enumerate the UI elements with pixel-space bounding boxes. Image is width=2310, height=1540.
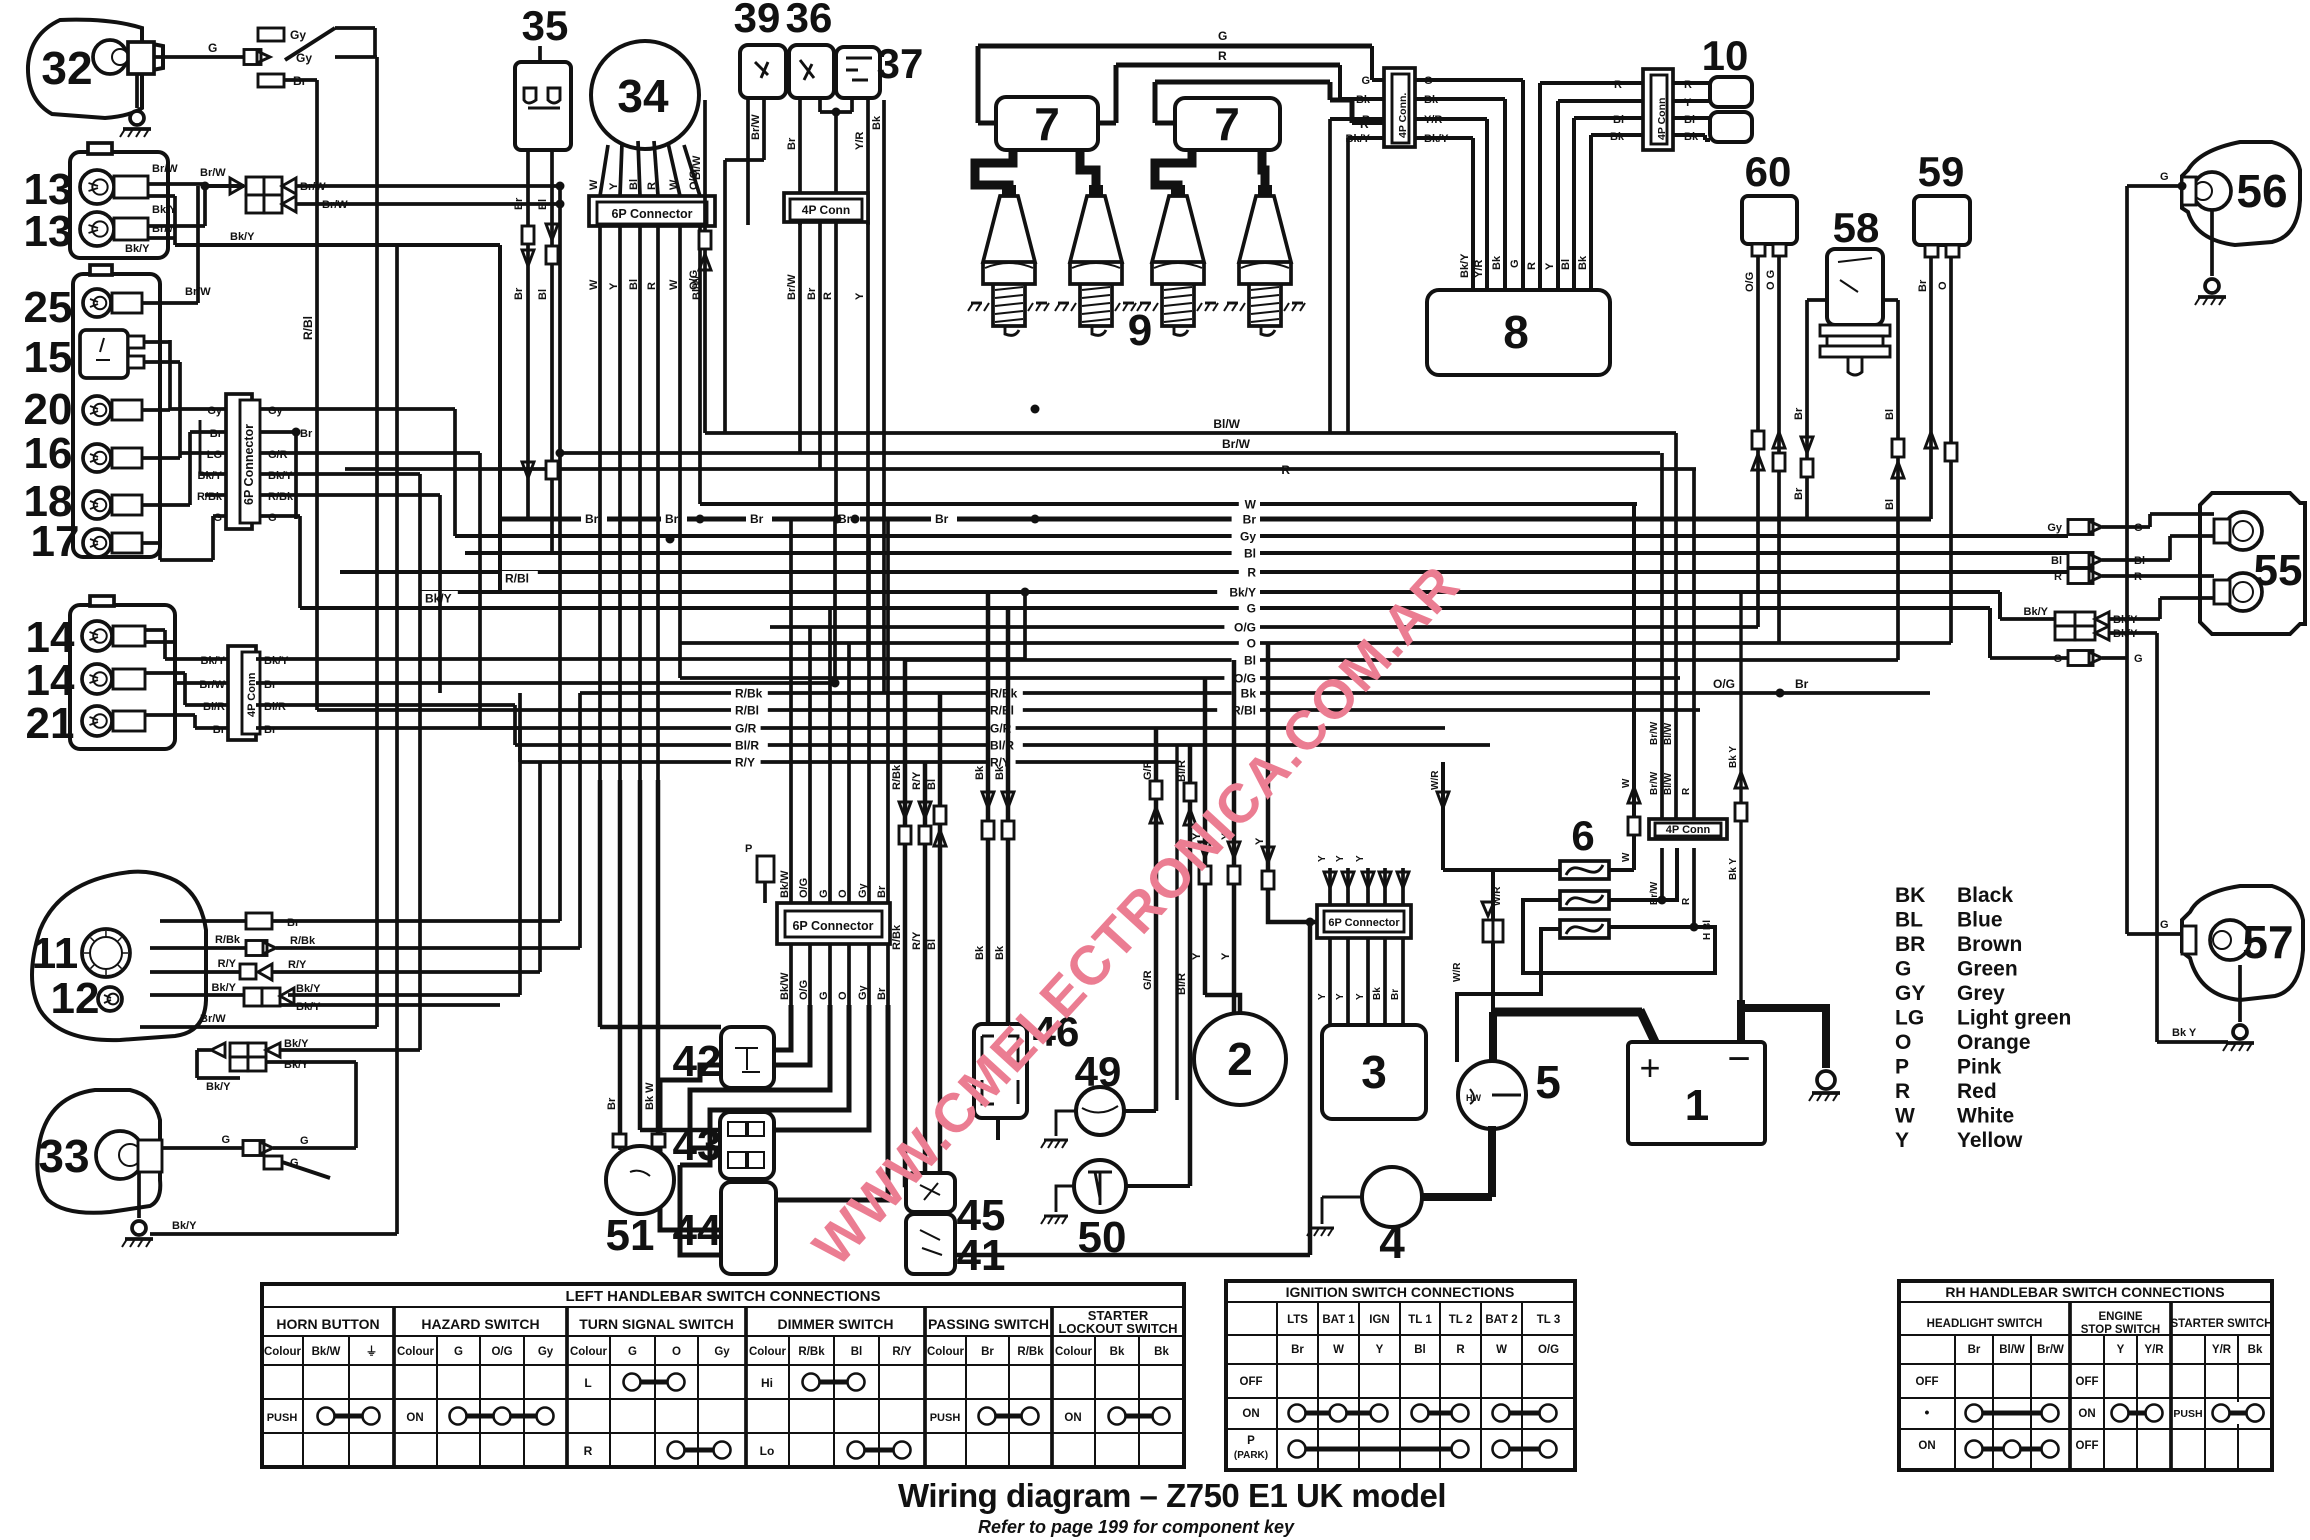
relay 44 xyxy=(721,1182,776,1274)
svg-text:Bk/Y: Bk/Y xyxy=(212,982,237,994)
svg-text:R/Y: R/Y xyxy=(218,958,237,970)
svg-text:O/G: O/G xyxy=(798,980,810,1000)
vertical wire Br x317 xyxy=(284,78,317,82)
svg-text:Y/R: Y/R xyxy=(2144,1344,2164,1356)
vertical from 56 down xyxy=(2125,186,2129,658)
wire bus O xyxy=(680,641,1951,645)
svg-text:Y: Y xyxy=(1544,262,1556,270)
svg-text:Bk Y: Bk Y xyxy=(1728,858,1739,880)
svg-text:ON: ON xyxy=(2078,1408,2095,1420)
svg-text:STARTER SWITCH: STARTER SWITCH xyxy=(2170,1318,2272,1330)
svg-text:PASSING SWITCH: PASSING SWITCH xyxy=(928,1316,1049,1332)
svg-text:Br: Br xyxy=(300,428,313,440)
wire W/R upper xyxy=(1441,762,1445,870)
spark plug 4 xyxy=(1258,185,1272,196)
wires below 4P conn 36 xyxy=(798,222,802,453)
wires below 4P mid xyxy=(1660,848,1664,900)
svg-text:Bk: Bk xyxy=(994,765,1006,780)
svg-text:Br: Br xyxy=(665,512,679,526)
svg-text:G: G xyxy=(1218,29,1227,43)
wire Br/W from 25 up xyxy=(142,301,198,305)
svg-text:Bl/W: Bl/W xyxy=(691,155,703,180)
connector 6P middle xyxy=(777,903,890,944)
svg-text:GY: GY xyxy=(1895,982,1925,1005)
svg-text:7: 7 xyxy=(1214,98,1240,150)
wire fan Y to horn xyxy=(618,226,622,780)
wires to 46 xyxy=(986,592,991,1024)
svg-text:Bk Y: Bk Y xyxy=(1728,746,1739,768)
svg-text:Br: Br xyxy=(1917,279,1929,292)
wire bus O/G xyxy=(770,625,1758,629)
wires 14s to 4P conn xyxy=(145,628,165,632)
svg-text:Gy: Gy xyxy=(1240,530,1256,544)
svg-text:Br: Br xyxy=(264,724,277,736)
svg-text:Gy: Gy xyxy=(207,405,223,417)
HT lead coil1 to plug1 xyxy=(975,150,1013,196)
svg-text:P: P xyxy=(1895,1056,1909,1079)
svg-text:R: R xyxy=(2054,571,2062,583)
svg-text:Bk/Y: Bk/Y xyxy=(284,1038,309,1050)
connector pair Bk/Y lower xyxy=(230,1043,248,1057)
svg-text:4P Conn: 4P Conn xyxy=(246,672,258,717)
wire bus Bl xyxy=(465,551,2068,555)
wire bus Bl xyxy=(905,658,1898,662)
svg-text:G: G xyxy=(1247,602,1256,616)
svg-text:43: 43 xyxy=(673,1121,722,1170)
svg-text:Bk/Y: Bk/Y xyxy=(201,655,226,667)
thick wire 4 to 5 xyxy=(1422,1193,1492,1201)
svg-text:20: 20 xyxy=(24,385,73,434)
wires above 4P mid xyxy=(1660,453,1664,819)
svg-text:Colour: Colour xyxy=(1055,1346,1093,1358)
svg-text:G/R: G/R xyxy=(1142,970,1154,990)
svg-text:R/Bl: R/Bl xyxy=(990,704,1014,718)
wire BkY from 57 ground xyxy=(2157,1040,2228,1044)
wires right of 4P top to 8 xyxy=(1415,78,1523,82)
svg-text:G: G xyxy=(2160,171,2169,183)
bulb 13 lower xyxy=(80,212,114,246)
svg-text:Y: Y xyxy=(1317,993,1328,1000)
svg-text:Gy: Gy xyxy=(857,882,869,898)
svg-text:White: White xyxy=(1957,1105,2014,1128)
wire G to 57 xyxy=(2127,932,2182,936)
svg-text:55: 55 xyxy=(2254,546,2303,595)
fuse3 left chain xyxy=(1457,929,1560,1062)
svg-text:Br/W: Br/W xyxy=(750,114,762,140)
connector 6P instruments xyxy=(226,394,252,529)
wire 41 right xyxy=(955,1253,1310,1258)
svg-text:R: R xyxy=(646,182,658,190)
svg-text:O/G: O/G xyxy=(1234,621,1256,635)
wire Gy diagonal switch xyxy=(285,28,335,60)
svg-text:21: 21 xyxy=(26,699,75,748)
wire 49 right xyxy=(1124,1109,1156,1113)
svg-text:BAT 1: BAT 1 xyxy=(1322,1314,1355,1326)
svg-text:34: 34 xyxy=(617,70,669,122)
svg-text:W: W xyxy=(1245,498,1257,512)
svg-text:R/Bk: R/Bk xyxy=(735,687,763,701)
svg-text:OFF: OFF xyxy=(1240,1376,1263,1388)
svg-text:PUSH: PUSH xyxy=(2173,1408,2202,1420)
svg-text:R: R xyxy=(1681,787,1692,795)
wire bus Br xyxy=(500,517,1931,522)
svg-text:G: G xyxy=(818,889,830,898)
svg-text:6P Connector: 6P Connector xyxy=(242,424,256,505)
svg-text:W/R: W/R xyxy=(1430,770,1441,790)
svg-text:Black: Black xyxy=(1957,884,2013,907)
svg-text:Bl/R: Bl/R xyxy=(264,701,286,713)
svg-text:R: R xyxy=(1895,1080,1910,1103)
svg-text:Br: Br xyxy=(264,679,277,691)
unit 8 xyxy=(1427,290,1610,375)
svg-text:Y: Y xyxy=(1220,952,1232,960)
svg-text:Bl: Bl xyxy=(926,779,938,790)
svg-text:39: 39 xyxy=(734,0,781,41)
wire bus R/Bl xyxy=(317,708,1700,712)
svg-text:O: O xyxy=(837,889,849,898)
svg-text:R/Bl: R/Bl xyxy=(735,704,759,718)
svg-text:4: 4 xyxy=(1379,1216,1405,1268)
small connector Br xyxy=(258,74,284,87)
svg-text:G: G xyxy=(1361,75,1370,87)
svg-text:Br: Br xyxy=(606,1097,618,1110)
wire G from 33 xyxy=(162,1146,243,1150)
svg-text:Br/W: Br/W xyxy=(200,167,226,179)
wires from 58 xyxy=(1807,298,1827,302)
wires Bk/Y 13 xyxy=(148,194,175,198)
svg-text:Bk W: Bk W xyxy=(644,1082,656,1110)
svg-text:R: R xyxy=(1281,463,1290,477)
ground under 57 xyxy=(2238,965,2242,1022)
svg-text:56: 56 xyxy=(2236,165,2287,217)
svg-text:Br: Br xyxy=(806,287,818,300)
switch 41 xyxy=(906,1214,955,1274)
vertical G from 55 to 57 xyxy=(2125,658,2129,934)
connector 4P under 36 xyxy=(784,193,868,222)
bulb 21 xyxy=(82,706,112,736)
svg-text:Y: Y xyxy=(1191,952,1203,960)
vertical wire Bk/Y x397 long xyxy=(395,245,399,1234)
svg-text:51: 51 xyxy=(606,1211,655,1260)
svg-text:TURN SIGNAL SWITCH: TURN SIGNAL SWITCH xyxy=(579,1316,734,1332)
svg-text:37: 37 xyxy=(877,40,924,87)
svg-text:17: 17 xyxy=(31,517,80,566)
svg-text:Y: Y xyxy=(1317,855,1328,862)
alternator 34 xyxy=(591,41,699,149)
svg-text:Bk: Bk xyxy=(871,115,883,130)
svg-text:O: O xyxy=(837,991,849,1000)
wire bus R xyxy=(340,570,2068,574)
svg-text:W: W xyxy=(668,179,680,190)
svg-text:⏚: ⏚ xyxy=(366,1345,378,1358)
svg-text:Bl: Bl xyxy=(1560,259,1572,270)
wire G from 32 xyxy=(154,55,244,59)
table left handlebar switch connections xyxy=(262,1284,1184,1467)
headlamp 56 xyxy=(2182,142,2300,245)
svg-text:Br: Br xyxy=(210,428,223,440)
svg-text:Bl: Bl xyxy=(537,289,549,300)
svg-text:Bk/Y: Bk/Y xyxy=(206,1081,231,1093)
svg-text:PUSH: PUSH xyxy=(930,1412,961,1424)
svg-text:Br/W: Br/W xyxy=(1649,771,1660,795)
svg-text:Bl/W: Bl/W xyxy=(1999,1344,2025,1356)
svg-text:RH HANDLEBAR SWITCH CONNECTION: RH HANDLEBAR SWITCH CONNECTIONS xyxy=(1945,1284,2224,1300)
thick bus third top xyxy=(1155,80,1330,85)
svg-text:57: 57 xyxy=(2242,916,2293,968)
lamp cluster 14 14 21 xyxy=(70,605,175,749)
svg-text:+: + xyxy=(1639,1047,1660,1088)
svg-text:HEADLIGHT SWITCH: HEADLIGHT SWITCH xyxy=(1927,1318,2043,1330)
svg-text:Green: Green xyxy=(1957,958,2018,981)
speedometer unit 11 12 xyxy=(32,872,206,1041)
svg-text:Brown: Brown xyxy=(1957,933,2022,956)
svg-text:Y/R: Y/R xyxy=(1473,260,1485,278)
bus left labels xyxy=(731,686,768,700)
svg-text:Pink: Pink xyxy=(1957,1056,2002,1079)
table ignition switch connections xyxy=(1226,1281,1575,1470)
svg-text:•: • xyxy=(1925,1404,1930,1420)
svg-text:Bk Y: Bk Y xyxy=(2172,1027,2197,1039)
wire fan W to 42 xyxy=(598,226,602,780)
headlamp 32 xyxy=(28,20,163,118)
HT lead coil2 to plug4 xyxy=(1262,150,1265,196)
svg-text:Br/W: Br/W xyxy=(1649,721,1660,745)
svg-text:3: 3 xyxy=(1361,1046,1387,1098)
svg-text:7: 7 xyxy=(1034,98,1060,150)
svg-text:9: 9 xyxy=(1128,306,1152,355)
svg-text:BK: BK xyxy=(1895,884,1925,907)
svg-text:R/Bk: R/Bk xyxy=(990,687,1018,701)
svg-text:Bk: Bk xyxy=(1491,255,1503,270)
switch 46 xyxy=(974,1024,1027,1118)
svg-text:G/R: G/R xyxy=(735,722,757,736)
svg-text:Bl: Bl xyxy=(1244,547,1256,561)
svg-text:Br: Br xyxy=(1793,407,1805,420)
svg-text:16: 16 xyxy=(24,429,73,478)
wire bus Gy xyxy=(455,534,2068,538)
svg-text:R: R xyxy=(822,292,834,300)
svg-text:Bk: Bk xyxy=(974,945,986,960)
svg-text:60: 60 xyxy=(1745,148,1792,195)
svg-text:O/G: O/G xyxy=(798,878,810,898)
svg-text:L: L xyxy=(584,1376,591,1390)
svg-text:Y: Y xyxy=(1355,993,1366,1000)
svg-text:G: G xyxy=(268,512,277,524)
svg-text:R/Bl: R/Bl xyxy=(301,316,315,340)
6P connector right wires xyxy=(260,407,455,411)
wires 34 fan to connector xyxy=(600,145,608,196)
svg-text:Br: Br xyxy=(513,197,525,210)
svg-text:33: 33 xyxy=(38,1130,89,1182)
svg-text:BAT 2: BAT 2 xyxy=(1485,1314,1517,1326)
svg-text:Bl/R: Bl/R xyxy=(203,701,225,713)
svg-text:Bk/W: Bk/W xyxy=(312,1346,341,1358)
svg-text:Br: Br xyxy=(1243,513,1257,527)
wire bus R/Y xyxy=(520,760,1177,764)
wire G to 56 xyxy=(2127,184,2182,188)
svg-text:Bl: Bl xyxy=(1414,1344,1426,1356)
bulb 13 upper xyxy=(80,170,114,204)
svg-text:R/Y: R/Y xyxy=(288,959,307,971)
svg-text:HAZARD SWITCH: HAZARD SWITCH xyxy=(421,1316,539,1332)
svg-text:G: G xyxy=(1509,259,1521,268)
svg-text:Br: Br xyxy=(585,512,599,526)
connector 6P under 34 xyxy=(589,196,715,226)
svg-text:Bk: Bk xyxy=(2248,1344,2263,1356)
staircase to components 42-44 xyxy=(774,1005,791,1050)
svg-text:Bl/W: Bl/W xyxy=(1663,722,1674,745)
svg-text:Y: Y xyxy=(2117,1344,2125,1356)
svg-text:Y: Y xyxy=(854,292,866,300)
svg-text:Y: Y xyxy=(1335,855,1346,862)
svg-text:O/G: O/G xyxy=(1713,677,1735,691)
svg-text:Bl/R: Bl/R xyxy=(990,739,1014,753)
starter switch 5 xyxy=(1458,1061,1526,1129)
svg-text:Bk/Y: Bk/Y xyxy=(284,1059,309,1071)
svg-text:O: O xyxy=(672,1346,681,1358)
wire R/Bk 11 xyxy=(150,946,246,950)
svg-text:R: R xyxy=(1456,1344,1465,1356)
svg-text:Br: Br xyxy=(981,1346,994,1358)
svg-text:2: 2 xyxy=(1227,1033,1253,1085)
svg-text:Bk/Y: Bk/Y xyxy=(2024,606,2049,618)
svg-text:42: 42 xyxy=(673,1037,722,1086)
connector on 32 wire xyxy=(244,50,261,65)
svg-text:R/Y: R/Y xyxy=(911,931,923,950)
wire 4 left ground xyxy=(1322,1196,1362,1199)
bulb 55 lower xyxy=(2224,573,2262,611)
svg-text:Br: Br xyxy=(213,724,226,736)
wire bus G xyxy=(300,606,1990,610)
wires Y to circle 2 xyxy=(1203,678,1208,995)
svg-text:Bl/R: Bl/R xyxy=(735,739,759,753)
staircase wires from fan to 44 xyxy=(660,1080,721,1230)
svg-text:44: 44 xyxy=(673,1206,722,1255)
svg-text:R/Bk: R/Bk xyxy=(268,491,294,503)
svg-text:Gy: Gy xyxy=(714,1346,730,1358)
HT lead coil1 to plug2 xyxy=(1080,150,1096,196)
svg-text:G: G xyxy=(300,1135,309,1147)
svg-text:6P Connector: 6P Connector xyxy=(611,207,692,221)
svg-text:PUSH: PUSH xyxy=(267,1412,298,1424)
bulb 55 upper xyxy=(2224,512,2262,550)
wires left of 4P top xyxy=(1370,46,1374,80)
svg-text:Bl: Bl xyxy=(537,199,549,210)
wire fuse1 left xyxy=(1443,868,1560,872)
svg-text:ON: ON xyxy=(1242,1408,1259,1420)
svg-text:OFF: OFF xyxy=(2076,1440,2099,1452)
regulator 3 xyxy=(1322,1025,1426,1119)
svg-text:4P Conn: 4P Conn xyxy=(802,203,850,217)
svg-text:W/R: W/R xyxy=(1492,886,1503,906)
svg-text:Colour: Colour xyxy=(264,1346,302,1358)
svg-text:8: 8 xyxy=(1503,306,1529,358)
relay 37 xyxy=(836,47,880,98)
svg-text:O/G: O/G xyxy=(1744,272,1756,292)
svg-text:Y: Y xyxy=(1254,837,1266,845)
svg-text:35: 35 xyxy=(522,2,569,49)
svg-text:Gy: Gy xyxy=(268,405,284,417)
svg-text:6P Connector: 6P Connector xyxy=(1328,917,1400,929)
bulb of 32 xyxy=(93,40,127,74)
Br bus labels and junctions xyxy=(581,512,607,525)
svg-text:TL 2: TL 2 xyxy=(1449,1314,1472,1326)
svg-text:Bk/Y: Bk/Y xyxy=(172,1220,197,1232)
wire fan W2 to O/G bus xyxy=(678,226,682,678)
svg-text:4P Conn: 4P Conn xyxy=(1656,98,1668,140)
ignition coil 7 left xyxy=(996,97,1098,150)
svg-text:Bk/Y: Bk/Y xyxy=(296,983,321,995)
svg-text:G: G xyxy=(2134,653,2143,665)
svg-text:Bk/Y: Bk/Y xyxy=(198,470,223,482)
svg-text:Bl: Bl xyxy=(628,179,640,190)
svg-text:Orange: Orange xyxy=(1957,1031,2031,1054)
svg-text:Br/W: Br/W xyxy=(199,679,225,691)
horn terminals xyxy=(613,1134,626,1147)
wire bus O/G xyxy=(680,676,1680,680)
ground under 33 xyxy=(137,1172,141,1218)
svg-text:Gy: Gy xyxy=(2047,522,2063,534)
switch 50 xyxy=(1074,1160,1126,1212)
svg-text:Bl: Bl xyxy=(1884,499,1896,510)
wire fan Bl to 43 xyxy=(638,226,642,780)
svg-text:BR: BR xyxy=(1895,933,1925,956)
bulb of 33 xyxy=(96,1131,144,1179)
svg-text:H Bl: H Bl xyxy=(1702,920,1713,940)
svg-text:R: R xyxy=(1526,262,1538,270)
svg-text:O/G: O/G xyxy=(1538,1344,1559,1356)
svg-text:Grey: Grey xyxy=(1957,982,2005,1005)
svg-text:IGN: IGN xyxy=(1369,1314,1389,1326)
svg-text:O: O xyxy=(1247,637,1256,651)
svg-text:Br: Br xyxy=(1291,1344,1304,1356)
svg-text:LTS: LTS xyxy=(1287,1314,1308,1326)
svg-text:Br/W: Br/W xyxy=(786,274,798,300)
svg-text:59: 59 xyxy=(1918,148,1965,195)
svg-text:W: W xyxy=(1333,1344,1344,1356)
svg-text:Red: Red xyxy=(1957,1080,1997,1103)
bulb 17 xyxy=(83,529,111,557)
vertical wire from Bk/Y pair xyxy=(354,1062,358,1148)
svg-text:Br: Br xyxy=(786,137,798,150)
wires from 39 36 37 xyxy=(746,98,750,225)
switch 45 xyxy=(906,1173,955,1212)
svg-text:Colour: Colour xyxy=(397,1346,435,1358)
ground under 32 xyxy=(135,74,139,108)
ground 49 xyxy=(1056,1111,1076,1136)
connector BkY pair 55 xyxy=(1998,592,2002,619)
svg-text:32: 32 xyxy=(41,42,92,94)
wires from 35 down xyxy=(526,150,530,519)
wire bus Bk xyxy=(580,691,1930,695)
svg-text:Bk/Y: Bk/Y xyxy=(125,243,150,255)
starter motor 4 xyxy=(1362,1167,1422,1227)
svg-text:Lo: Lo xyxy=(760,1444,775,1458)
svg-text:W: W xyxy=(1895,1105,1915,1128)
svg-text:R/Bk: R/Bk xyxy=(1017,1346,1044,1358)
svg-text:Gy: Gy xyxy=(857,984,869,1000)
svg-text:Br/W: Br/W xyxy=(200,1013,226,1025)
svg-text:R: R xyxy=(584,1444,593,1458)
svg-text:O/G: O/G xyxy=(1234,672,1256,686)
connector 4P mid right xyxy=(1649,819,1727,839)
spark plug 2 xyxy=(1089,185,1103,196)
svg-text:ON: ON xyxy=(1918,1440,1935,1452)
svg-text:O/G: O/G xyxy=(491,1346,512,1358)
svg-text:G/R: G/R xyxy=(268,449,288,461)
svg-text:R: R xyxy=(1218,49,1227,63)
bulb 14 lower xyxy=(82,664,112,694)
